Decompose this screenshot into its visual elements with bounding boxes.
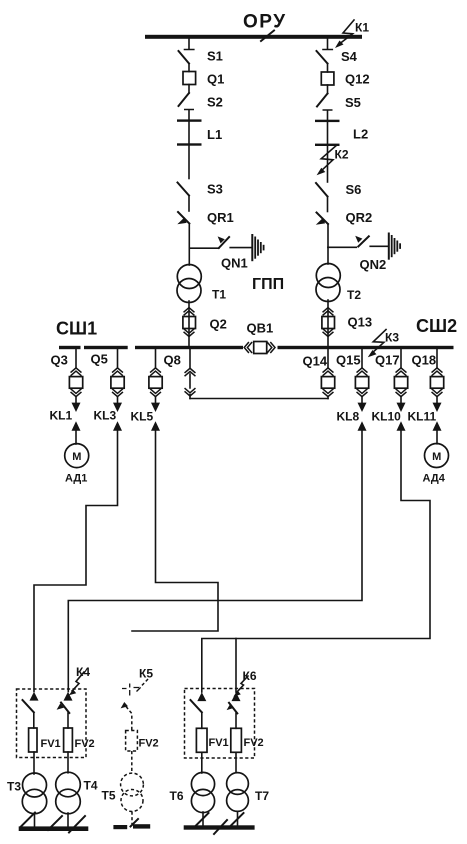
svg-text:L1: L1 bbox=[207, 127, 222, 142]
svg-text:Q17: Q17 bbox=[375, 353, 400, 368]
ground hatch QN1 bbox=[252, 234, 263, 261]
feeder Q18 bbox=[430, 349, 443, 403]
transformer T6 bbox=[191, 772, 214, 826]
svg-text:FV2: FV2 bbox=[244, 737, 264, 749]
ground bar T6 T7 bbox=[184, 825, 255, 829]
wire to K6 right branch bbox=[235, 639, 237, 693]
svg-text:К1: К1 bbox=[355, 21, 369, 35]
breaker Q12 bbox=[321, 72, 334, 85]
svg-text:М: М bbox=[72, 451, 81, 463]
svg-text:FV1: FV1 bbox=[41, 738, 61, 750]
svg-text:S4: S4 bbox=[341, 49, 358, 64]
bus section slash bbox=[261, 31, 274, 42]
cable end right K4 bbox=[64, 692, 73, 701]
svg-text:СШ2: СШ2 bbox=[416, 316, 457, 336]
svg-text:Q3: Q3 bbox=[51, 353, 68, 368]
breaker Q13 with plug-in contacts bbox=[322, 300, 335, 346]
grounding switch QN1 bbox=[189, 236, 250, 248]
short-circuiter K5 dashed bbox=[121, 702, 132, 730]
svg-text:FV2: FV2 bbox=[75, 738, 95, 750]
feeder Q17 bbox=[394, 349, 407, 403]
ground bar T3 T4 bbox=[19, 826, 89, 831]
reactor L1 bbox=[177, 119, 202, 178]
fault K5 arrow dashed bbox=[140, 679, 148, 688]
svg-text:FV1: FV1 bbox=[209, 737, 229, 749]
arrester FV2 K6 bbox=[231, 728, 242, 752]
svg-text:T5: T5 bbox=[102, 789, 116, 803]
svg-text:KL10: KL10 bbox=[372, 410, 402, 424]
ground slash mid right bbox=[214, 820, 227, 834]
wire KL8 route bbox=[68, 431, 362, 692]
ground slash mid bbox=[48, 816, 62, 830]
svg-text:S1: S1 bbox=[207, 49, 223, 64]
reserve link stub bbox=[185, 349, 195, 399]
svg-text:К2: К2 bbox=[335, 148, 349, 162]
fault K6 arrow bbox=[233, 676, 248, 697]
feeder Q3 bbox=[69, 349, 82, 403]
svg-text:KL3: KL3 bbox=[94, 409, 117, 423]
short-circuiter K4 right bbox=[57, 703, 70, 729]
cable KL11 bbox=[433, 403, 442, 444]
svg-text:QB1: QB1 bbox=[247, 321, 274, 336]
svg-text:QN1: QN1 bbox=[221, 256, 248, 271]
svg-text:Т6: Т6 bbox=[170, 789, 184, 803]
cable KL5 bbox=[151, 403, 160, 431]
transformer T7 bbox=[227, 773, 249, 826]
bus SSh1 segment c bbox=[135, 346, 243, 349]
svg-text:СШ1: СШ1 bbox=[56, 319, 97, 339]
disconnector S4 bbox=[317, 51, 328, 64]
svg-text:QR2: QR2 bbox=[346, 210, 373, 225]
svg-text:Q15: Q15 bbox=[336, 353, 361, 368]
svg-text:S6: S6 bbox=[346, 182, 362, 197]
svg-text:T3: T3 bbox=[7, 780, 21, 794]
svg-text:Q8: Q8 bbox=[164, 353, 181, 368]
arrester FV2 K5 dashed bbox=[126, 731, 138, 752]
motor AD1 bbox=[65, 444, 89, 468]
svg-text:Q14: Q14 bbox=[303, 354, 328, 369]
fault K3 arrow bbox=[368, 330, 386, 358]
ground slash T7 bbox=[231, 813, 244, 826]
ground hatch QN2 bbox=[389, 233, 400, 260]
disconnector S5 bbox=[327, 85, 329, 94]
bus coupler QB1 bbox=[244, 342, 275, 354]
svg-text:Q12: Q12 bbox=[345, 72, 370, 87]
cable KL3 bbox=[113, 403, 122, 431]
svg-text:АД1: АД1 bbox=[65, 473, 87, 485]
feeder Q8 bbox=[149, 349, 162, 403]
reactor L2 bbox=[315, 120, 340, 182]
feeder Q5 bbox=[111, 349, 124, 403]
svg-text:KL1: KL1 bbox=[50, 409, 73, 423]
wire KL10 route bbox=[202, 431, 430, 692]
ground bar T5 dashed bbox=[113, 819, 150, 829]
svg-text:QR1: QR1 bbox=[207, 210, 234, 225]
wire bus to S1 bbox=[185, 39, 194, 50]
transformer T5 dashed bbox=[121, 773, 144, 824]
protection box K6 bbox=[185, 689, 255, 759]
svg-text:Q2: Q2 bbox=[210, 317, 227, 332]
bus ORU bbox=[145, 35, 362, 39]
svg-text:QN2: QN2 bbox=[360, 257, 387, 272]
svg-text:FV2: FV2 bbox=[139, 738, 159, 750]
svg-text:S2: S2 bbox=[207, 95, 223, 110]
fault K1 arrow bbox=[335, 20, 354, 48]
svg-text:Q18: Q18 bbox=[412, 353, 437, 368]
svg-text:S5: S5 bbox=[345, 95, 361, 110]
motor AD4 bbox=[425, 444, 449, 468]
svg-text:T7: T7 bbox=[255, 789, 269, 803]
fault K4 arrow bbox=[69, 672, 84, 695]
svg-text:ОРУ: ОРУ bbox=[243, 12, 287, 33]
ground slash T4 bbox=[69, 816, 85, 833]
switch K4 left bbox=[23, 700, 34, 712]
feeder Q15 bbox=[355, 349, 368, 403]
cable KL10 bbox=[397, 403, 406, 431]
cable end left K6 bbox=[197, 692, 206, 701]
transformer T1 bbox=[177, 248, 201, 302]
svg-text:К3: К3 bbox=[385, 331, 399, 345]
svg-text:Q5: Q5 bbox=[91, 352, 108, 367]
svg-text:T2: T2 bbox=[347, 288, 361, 302]
tie wire to Q14 bbox=[190, 398, 328, 400]
cable KL8 bbox=[358, 403, 367, 431]
svg-text:К6: К6 bbox=[243, 669, 257, 683]
wire KL3 route bbox=[34, 431, 118, 692]
disconnector S1 bbox=[179, 51, 190, 64]
svg-text:T4: T4 bbox=[84, 779, 98, 793]
short-circuiter K6 right bbox=[227, 703, 238, 729]
disconnector S2 bbox=[188, 85, 190, 94]
fault K2 arrow bbox=[317, 146, 336, 175]
svg-text:L2: L2 bbox=[353, 127, 368, 142]
svg-text:KL5: KL5 bbox=[131, 410, 154, 424]
protection box K5 dashed fragment bbox=[122, 684, 141, 696]
svg-text:T1: T1 bbox=[212, 288, 226, 302]
arrester FV1 K4 bbox=[29, 728, 37, 752]
protection box K4 bbox=[17, 689, 87, 758]
svg-text:KL11: KL11 bbox=[408, 410, 437, 424]
bus SSh2 bbox=[278, 346, 454, 349]
cable end right K6 bbox=[232, 692, 241, 701]
cable end left K4 bbox=[30, 692, 39, 701]
grounding switch QN2 bbox=[328, 236, 388, 248]
separator QR2 bbox=[316, 213, 328, 248]
separator QR1 bbox=[177, 212, 189, 248]
feeder Q14 bbox=[321, 349, 334, 399]
svg-text:S3: S3 bbox=[207, 182, 223, 197]
ground slash T3 bbox=[21, 813, 35, 827]
breaker Q2 with plug-in contacts bbox=[183, 301, 196, 346]
svg-text:К5: К5 bbox=[139, 667, 153, 681]
transformer T3 bbox=[22, 773, 46, 827]
svg-text:ГПП: ГПП bbox=[252, 276, 284, 293]
bus SSh1 segment b bbox=[84, 346, 128, 349]
svg-text:М: М bbox=[432, 451, 441, 463]
cable KL1 bbox=[72, 403, 81, 444]
breaker Q1 bbox=[183, 72, 196, 85]
switch K6 left bbox=[191, 700, 202, 712]
wire K5 to T5 dashed bbox=[131, 751, 133, 773]
svg-text:KL8: KL8 bbox=[337, 410, 360, 424]
transformer T4 bbox=[56, 772, 81, 827]
ground slash T6 bbox=[196, 813, 209, 826]
svg-text:АД4: АД4 bbox=[423, 473, 446, 485]
arrester FV1 K6 bbox=[196, 728, 207, 752]
wire bus to S4 bbox=[323, 39, 332, 50]
arrester FV2 K4 bbox=[64, 728, 73, 752]
svg-text:Q1: Q1 bbox=[207, 72, 224, 87]
disconnector S6 bbox=[316, 183, 328, 197]
transformer T2 bbox=[316, 247, 340, 301]
svg-text:Q13: Q13 bbox=[348, 315, 373, 330]
wire KL5 route bbox=[132, 431, 218, 631]
bus SSh1 segment a bbox=[59, 346, 81, 349]
disconnector S3 bbox=[178, 183, 190, 196]
